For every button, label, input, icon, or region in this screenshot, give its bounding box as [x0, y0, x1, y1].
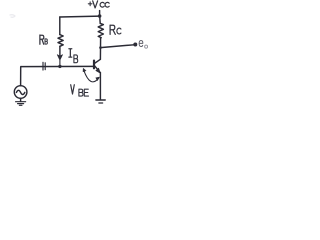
label +Vcc: cc: [100, 2, 104, 7]
output wire to terminal: [101, 45, 134, 48]
resistor RC: [98, 23, 103, 37]
sine wave inside source: [16, 90, 24, 94]
label +Vcc: V: [93, 1, 98, 8]
label eo: o subscript: [145, 45, 148, 48]
label VBE: V: [71, 85, 75, 94]
label RB: R: [40, 35, 44, 44]
wire RB to node, IB arrow shaft: [59, 46, 61, 58]
transistor Q1 collector lead: [95, 59, 101, 63]
wire horizontal to base: [21, 65, 93, 67]
label RC: c subscript: [117, 28, 121, 34]
transistor Q1 emitter lead: [95, 66, 101, 73]
label IB: B subscript: [74, 55, 78, 63]
IB arrow head: [57, 55, 62, 61]
wire collector node down: [99, 48, 101, 60]
label VBE: B: [79, 89, 83, 96]
resistor RB: [58, 35, 63, 47]
wire emitter to ground: [99, 73, 101, 100]
VBE curved arrow: [84, 70, 99, 81]
node B junction dot: [58, 65, 61, 68]
emitter arrow head: [96, 68, 101, 73]
label RB: B subscript: [45, 39, 47, 44]
label VBE: E: [84, 89, 88, 96]
wire source up to base line: [20, 67, 22, 86]
wire RC to collector node: [100, 38, 102, 48]
label eo: e: [139, 41, 143, 47]
label RC: R: [110, 25, 115, 34]
AC source V1: [14, 86, 27, 99]
Vcc tick: [99, 11, 101, 16]
label +Vcc: plus: [88, 2, 92, 6]
label IB: I: [69, 49, 72, 57]
Vcc junction dot: [98, 14, 102, 18]
wire rail down to RB: [59, 17, 61, 35]
top rail wire: [60, 15, 100, 18]
wire source to ground: [20, 98, 22, 101]
smudge artifact top-left: [10, 15, 15, 18]
transistor Q1 base bar: [93, 61, 95, 69]
collector node dot: [99, 46, 102, 49]
ground (source): [16, 101, 26, 103]
capacitor C1 plates: [42, 62, 44, 70]
output terminal dot: [133, 43, 137, 47]
wire Vcc dot down to RC: [99, 16, 102, 23]
ground (emitter): [96, 99, 105, 101]
